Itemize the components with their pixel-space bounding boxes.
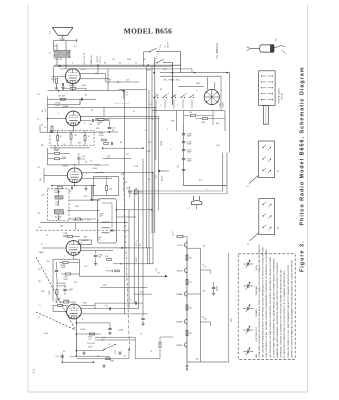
wire V1 screen right <box>80 65 98 73</box>
osc coil lower <box>55 210 64 220</box>
cap row y99 <box>79 98 83 105</box>
wire V1 grid row <box>80 69 109 91</box>
heater V3 bump <box>176 292 187 297</box>
tube V5 12BA6b <box>66 304 81 319</box>
cluster right of V4 <box>94 251 112 266</box>
svg-text:REFER TO SERVICE MANUAL FOR AL: REFER TO SERVICE MANUAL FOR ALIGNMENT PR… <box>290 259 293 357</box>
labels top area <box>104 59 146 65</box>
wires right of osc box <box>67 185 100 211</box>
svg-text:5: 5 <box>167 129 168 131</box>
wire row y248.3 <box>121 247 152 249</box>
svg-text:B11: B11 <box>196 359 199 361</box>
wire V1 plate left <box>54 66 66 83</box>
speaker LS1 <box>50 27 74 35</box>
label S1 on-off <box>165 41 170 49</box>
cluster C1B <box>63 223 80 238</box>
svg-text:R14: R14 <box>40 178 42 181</box>
label V5 <box>63 299 70 302</box>
svg-text:12: 12 <box>150 351 152 353</box>
svg-text:B8: B8 <box>190 308 192 310</box>
svg-text:4: 4 <box>64 256 65 258</box>
power box top <box>152 111 225 132</box>
svg-text:C1: C1 <box>46 235 48 237</box>
svg-text:6: 6 <box>196 90 197 92</box>
svg-text:150: 150 <box>126 80 129 82</box>
IF filter box dashed T4 <box>50 131 94 146</box>
wire switch drop x172.4 <box>164 62 172 105</box>
wire x221 down <box>220 76 222 111</box>
wire row y217 <box>117 216 137 218</box>
svg-text:C16 .02: C16 .02 <box>100 56 102 63</box>
label V2 12BA6 <box>62 105 84 111</box>
svg-text:35W4: 35W4 <box>177 271 183 273</box>
svg-text:AC/DC: AC/DC <box>161 175 164 181</box>
svg-text:ON-OFF: ON-OFF <box>168 41 170 49</box>
svg-text:05: 05 <box>97 356 99 358</box>
svg-text:1: 1 <box>266 76 267 78</box>
svg-text:C9: C9 <box>38 167 40 169</box>
svg-text:B2: B2 <box>38 213 40 215</box>
component box L4 <box>79 240 92 245</box>
svg-text:TUBULAR: TUBULAR <box>255 286 258 296</box>
heater V1 bump <box>177 243 187 248</box>
labels mid right column <box>120 104 153 184</box>
svg-text:C21: C21 <box>178 165 180 168</box>
cap cluster mid y158 <box>77 153 86 165</box>
bottom box edge <box>95 337 135 359</box>
page left edge <box>27 4 29 392</box>
heater resistor R1 <box>186 255 192 260</box>
component drop x123.7 <box>124 90 129 99</box>
wire x229.5 down <box>229 73 231 153</box>
resistor C16A 1K <box>63 84 86 91</box>
svg-text:12AV6: 12AV6 <box>176 344 183 347</box>
svg-text:TRANS. B5: TRANS. B5 <box>90 55 93 65</box>
svg-text:OSC: OSC <box>55 204 60 206</box>
component y269 small <box>106 268 119 272</box>
label V6 right <box>219 102 224 108</box>
svg-text:1400: 1400 <box>99 216 103 218</box>
wire row y356.2 <box>70 355 110 357</box>
svg-text:1.5 E.S. 50-14: 1.5 E.S. 50-14 <box>84 53 86 65</box>
heater resistor R3 <box>186 305 192 310</box>
svg-text:C19A: C19A <box>53 149 59 152</box>
connector plug B <box>247 199 275 246</box>
bus y107.4 <box>48 106 156 108</box>
svg-text:R21: R21 <box>54 46 57 48</box>
resistor 22K 2W <box>58 96 65 101</box>
wire row y358.8 <box>76 358 129 360</box>
legend symbol labels <box>255 265 258 358</box>
svg-text:4: 4 <box>266 94 267 96</box>
svg-text:C18: C18 <box>126 188 129 190</box>
cluster left bottom <box>56 353 64 363</box>
bus wire y68.9 <box>60 69 192 73</box>
cluster C19A <box>48 148 71 165</box>
svg-text:B5: B5 <box>139 244 141 246</box>
svg-text:B10: B10 <box>216 123 219 125</box>
svg-text:C25: C25 <box>105 306 108 308</box>
svg-text:5: 5 <box>186 93 187 95</box>
svg-text:E15 OUT: E15 OUT <box>55 59 64 61</box>
svg-text:3: 3 <box>86 173 87 175</box>
bus wire y65.2 <box>54 64 181 66</box>
grounds bottom <box>82 351 121 368</box>
wire row y222.7 <box>40 222 128 224</box>
svg-text:B4: B4 <box>120 142 122 144</box>
svg-text:150: 150 <box>189 112 192 114</box>
svg-text:220: 220 <box>84 196 87 198</box>
svg-text:B2: B2 <box>109 80 111 82</box>
wire row y362.2 <box>63 361 95 363</box>
labels left column extra <box>38 94 49 335</box>
label 50-14 trans vertical <box>84 53 102 65</box>
svg-text:C20: C20 <box>216 145 219 147</box>
svg-text:05: 05 <box>145 130 147 132</box>
wire row y308.7 <box>81 306 138 311</box>
svg-text:C24A: C24A <box>118 329 123 332</box>
svg-text:B8: B8 <box>203 291 205 293</box>
page bottom edge <box>28 391 308 393</box>
svg-text:22: 22 <box>135 63 137 65</box>
svg-text:S2: S2 <box>173 96 175 98</box>
wire row y322.9 <box>76 322 110 324</box>
svg-text:+: + <box>187 169 188 171</box>
svg-text:2: 2 <box>64 183 65 185</box>
wire row y263.8 ext <box>113 263 153 264</box>
power resistors <box>189 112 208 124</box>
tube V4 12BE6 <box>66 241 81 256</box>
svg-text:R19: R19 <box>41 291 44 293</box>
wire row y99.2 <box>48 98 97 100</box>
svg-text:VIEW A6: VIEW A6 <box>280 93 283 100</box>
svg-text:C11: C11 <box>126 154 129 156</box>
svg-text:5: 5 <box>84 123 85 125</box>
wire row y294.1 <box>134 293 152 295</box>
svg-text:C24 OSC: C24 OSC <box>87 343 96 345</box>
IF can resistor 24K <box>105 177 112 196</box>
caps y319 <box>141 314 144 326</box>
resistor R18A <box>59 262 79 270</box>
wire row y350.2 <box>76 350 104 352</box>
heater resistor R2 <box>186 279 192 284</box>
wire bundle x129 <box>128 210 130 309</box>
wire y73.4 stub <box>95 72 106 74</box>
label row y219 <box>73 220 90 222</box>
svg-text:K=1000 OHMS. MEG=MEGOHMS. ALL: K=1000 OHMS. MEG=MEGOHMS. ALL CAPACITANC… <box>272 258 275 357</box>
switch S1a blade <box>149 48 181 52</box>
connector A label <box>278 169 280 172</box>
cluster C10 mid <box>96 121 118 133</box>
svg-text:CERAMIC: CERAMIC <box>255 308 258 318</box>
wire switch drop x180.7 <box>180 51 182 72</box>
wire B+ arrow y276.2 <box>79 273 167 278</box>
labels v2 area extra <box>58 110 99 146</box>
label V1 50C5 <box>66 67 86 72</box>
wire link dashdot <box>123 172 129 350</box>
wire y76.2 <box>160 75 221 77</box>
wire y72.6 <box>160 72 230 74</box>
wire left rail <box>47 97 49 133</box>
filter cap chain <box>182 124 185 186</box>
wire V5 left <box>53 305 67 312</box>
svg-text:2: 2 <box>266 82 267 84</box>
power bus y193.8 <box>129 186 227 194</box>
svg-text:R16: R16 <box>66 82 69 84</box>
svg-text:C22: C22 <box>57 298 60 300</box>
svg-text:7: 7 <box>66 67 67 69</box>
heater resistor R4 <box>186 330 192 335</box>
svg-text:12BE6: 12BE6 <box>176 322 183 324</box>
heater line main <box>186 241 188 363</box>
svg-text:68: 68 <box>203 316 205 318</box>
heater V2 bump <box>177 268 187 273</box>
svg-text:2: 2 <box>83 109 84 111</box>
svg-text:L4: L4 <box>80 243 82 245</box>
svg-text:T3: T3 <box>151 119 153 121</box>
svg-text:C3: C3 <box>38 94 40 96</box>
svg-text:MICA: MICA <box>255 265 258 271</box>
svg-text:5: 5 <box>170 149 171 151</box>
page number 1-6 <box>32 369 36 373</box>
wire row y287.5 <box>100 287 148 289</box>
wire row y303.1 <box>95 300 143 305</box>
svg-text:R17: R17 <box>38 281 41 283</box>
svg-text:1200: 1200 <box>201 122 205 124</box>
wire speaker to T2 <box>54 35 77 50</box>
svg-text:5: 5 <box>266 99 267 101</box>
heater return line <box>200 248 202 362</box>
labels mid bottom <box>103 285 144 294</box>
svg-text:C20A THRU C20D ARE SECTIONS OF: C20A THRU C20D ARE SECTIONS OF ONE ELECT… <box>258 244 261 358</box>
labels bottom mid extra <box>118 329 152 358</box>
heater cap ground <box>212 282 219 295</box>
tuning gang dashed diagonal 1 <box>36 257 76 330</box>
svg-text:270K: 270K <box>88 347 93 349</box>
bus pair y118.6 <box>95 118 159 120</box>
wire bus y90.7 <box>48 90 125 92</box>
page right edge <box>307 4 309 392</box>
labels converter extra <box>147 69 197 108</box>
wire trunk x76.4 <box>76 319 78 357</box>
osc label row <box>163 79 201 86</box>
svg-text:S1: S1 <box>165 45 167 47</box>
svg-text:B6: B6 <box>203 246 205 248</box>
label V3 12AV6 <box>62 165 69 168</box>
labels v1 area extra <box>54 46 87 97</box>
label b2 top <box>109 80 129 82</box>
svg-text:47: 47 <box>60 136 62 138</box>
connector B label <box>278 226 280 229</box>
wire V4 down <box>73 255 75 259</box>
svg-text:05: 05 <box>148 179 150 181</box>
volume cluster <box>49 278 71 303</box>
svg-text:w2: w2 <box>247 244 249 246</box>
junction dots y72.6 <box>153 72 228 74</box>
wire to switch S1 <box>144 52 150 67</box>
svg-text:R9: R9 <box>91 110 93 112</box>
svg-text:12BA6: 12BA6 <box>176 293 183 296</box>
svg-text:B1: B1 <box>104 63 106 65</box>
IF can T5 rounded box <box>98 199 117 243</box>
svg-text:+14 B7V: +14 B7V <box>97 55 99 63</box>
labels power area <box>160 89 175 146</box>
svg-text:C17: C17 <box>38 269 41 271</box>
label L5 right <box>136 241 138 243</box>
wire long x152 <box>151 66 153 233</box>
caption Figure 3 <box>300 66 306 272</box>
cluster bottom y298-304 <box>55 299 76 304</box>
svg-text:USED ON CODES 121-122. PART NU: USED ON CODES 121-122. PART NUMBERS SUBJ… <box>287 264 290 357</box>
IF can contents <box>98 203 114 241</box>
tube V6 socket view <box>204 89 219 105</box>
socket pictorial box <box>259 71 276 124</box>
svg-text:1M: 1M <box>97 124 100 126</box>
connector plug A <box>247 141 275 188</box>
svg-text:CR1: CR1 <box>276 38 278 42</box>
svg-text:R8: R8 <box>41 145 43 147</box>
wire x105.5 stub <box>105 73 107 82</box>
svg-text:220: 220 <box>74 282 77 284</box>
tube V3 12AV6 <box>67 168 82 183</box>
heater labels right <box>203 264 233 322</box>
svg-text:C7: C7 <box>133 111 135 113</box>
power L wire <box>184 153 228 186</box>
resistor 47K y219 <box>69 218 96 220</box>
title MODEL B656 <box>124 27 172 36</box>
svg-text:C12: C12 <box>124 182 127 184</box>
heater branch labels <box>196 246 207 361</box>
wire corner y263.8 <box>148 263 154 265</box>
switch S1b blade <box>156 59 164 63</box>
svg-text:35W4: 35W4 <box>161 141 163 146</box>
svg-text:12BA6: 12BA6 <box>62 105 69 108</box>
wire long x154.8 <box>154 57 156 233</box>
svg-text:12BA6: 12BA6 <box>63 299 70 302</box>
wire bundle x143 <box>142 159 144 314</box>
socket label <box>277 87 283 104</box>
heater V5 bump <box>176 343 187 348</box>
svg-text:R10: R10 <box>96 128 99 130</box>
wire row y259.2 <box>53 259 79 301</box>
cap C8 row <box>81 119 110 126</box>
labels bundle <box>136 242 158 272</box>
wire row y313.9 <box>81 313 147 315</box>
labels left margin upper <box>42 108 47 126</box>
wire V3 left <box>40 168 67 183</box>
svg-text:R25: R25 <box>171 121 174 123</box>
svg-text:05: 05 <box>97 220 99 222</box>
switch gang dashed <box>154 45 162 67</box>
switch blade bottom <box>103 344 129 351</box>
svg-text:47: 47 <box>85 162 87 164</box>
wire bundle x153 <box>152 173 154 264</box>
heater V4 bump <box>176 319 187 324</box>
wire y89.8 right <box>119 89 147 91</box>
svg-text:L3: L3 <box>140 334 142 336</box>
svg-text:47: 47 <box>150 104 152 106</box>
svg-text:OSC. TRANS. 700-1: OSC. TRANS. 700-1 <box>163 79 180 82</box>
cluster under V3 <box>51 185 96 194</box>
wires V6 top <box>208 77 215 90</box>
labels left rail lower <box>38 227 44 307</box>
svg-text:220K: 220K <box>61 267 66 269</box>
svg-text:47: 47 <box>124 356 126 358</box>
power wires inner <box>184 111 226 124</box>
output transformer T2 <box>50 44 70 69</box>
svg-text:MARKED. MF=MICROFARADS. ARROW: MARKED. MF=MICROFARADS. ARROW ON VOLUME … <box>276 262 279 357</box>
oscillator box dashed T1 <box>47 189 69 221</box>
svg-text:C14: C14 <box>68 191 71 193</box>
svg-text:B3: B3 <box>160 89 162 91</box>
svg-text:S2: S2 <box>63 351 65 353</box>
misc wires x100-160 y130-190 <box>95 132 153 174</box>
heater branches <box>187 248 229 362</box>
filter cap labels <box>178 133 193 172</box>
heater top component <box>172 232 187 241</box>
wire row y132.2 <box>40 125 96 133</box>
label T4 456KC <box>50 147 90 151</box>
IF can feed wire box <box>93 177 119 196</box>
svg-text:560: 560 <box>60 226 63 228</box>
wire row y334 <box>76 333 101 341</box>
terminal AC <box>156 170 170 181</box>
wire bundle x134.2 <box>133 190 135 303</box>
svg-text:1: 1 <box>66 307 67 309</box>
svg-text:100: 100 <box>98 257 101 259</box>
wire row y209.8 <box>116 209 153 211</box>
svg-text:50C5: 50C5 <box>177 245 183 247</box>
label IF 455 KC <box>215 42 219 58</box>
svg-text:12AV6: 12AV6 <box>62 165 69 168</box>
svg-text:OSC: OSC <box>73 220 78 222</box>
wire row y340 <box>95 338 135 342</box>
svg-text:T2: T2 <box>50 52 52 54</box>
wire bundle x146.3 <box>145 66 147 248</box>
svg-text:05: 05 <box>85 95 87 97</box>
label V4 12BE6 <box>82 240 89 242</box>
svg-text:B+ DENOTES CONNECTION TO FILTE: B+ DENOTES CONNECTION TO FILTER OUTPUT. … <box>283 270 286 358</box>
svg-text:TERMINAL BOARD: TERMINAL BOARD <box>277 87 280 104</box>
svg-text:C21 .02: C21 .02 <box>59 39 66 41</box>
svg-text:3.2: 3.2 <box>74 46 77 48</box>
svg-text:3: 3 <box>266 88 267 90</box>
svg-text:R18: R18 <box>83 303 86 305</box>
svg-text:L5: L5 <box>136 241 138 243</box>
svg-text:12BE6: 12BE6 <box>82 240 89 242</box>
wire V2 plate right <box>103 107 105 116</box>
svg-text:05: 05 <box>119 63 121 65</box>
svg-text:B5: B5 <box>121 174 123 176</box>
wire row y199.5 <box>90 199 98 201</box>
cluster top of IF can <box>126 186 143 198</box>
wire row y104.8 <box>48 99 81 107</box>
svg-text:6: 6 <box>206 189 207 191</box>
svg-text:12AV6: 12AV6 <box>222 102 225 108</box>
legend capacitor symbols <box>244 260 254 356</box>
svg-text:w1: w1 <box>247 186 249 188</box>
svg-text:GANG: GANG <box>39 251 45 254</box>
labels v5 area extra <box>57 298 115 363</box>
wire V2 down <box>72 126 74 132</box>
svg-text:47: 47 <box>88 136 90 138</box>
power plug P1 <box>189 196 202 210</box>
svg-text:2: 2 <box>160 105 161 107</box>
svg-text:ALL VOLTAGES MEASURED WITH VTV: ALL VOLTAGES MEASURED WITH VTVM FROM SOC… <box>262 247 265 358</box>
wires V4 right <box>81 248 121 251</box>
labels v4 area extra <box>46 220 99 291</box>
svg-text:C16A 1K: C16A 1K <box>68 84 76 87</box>
